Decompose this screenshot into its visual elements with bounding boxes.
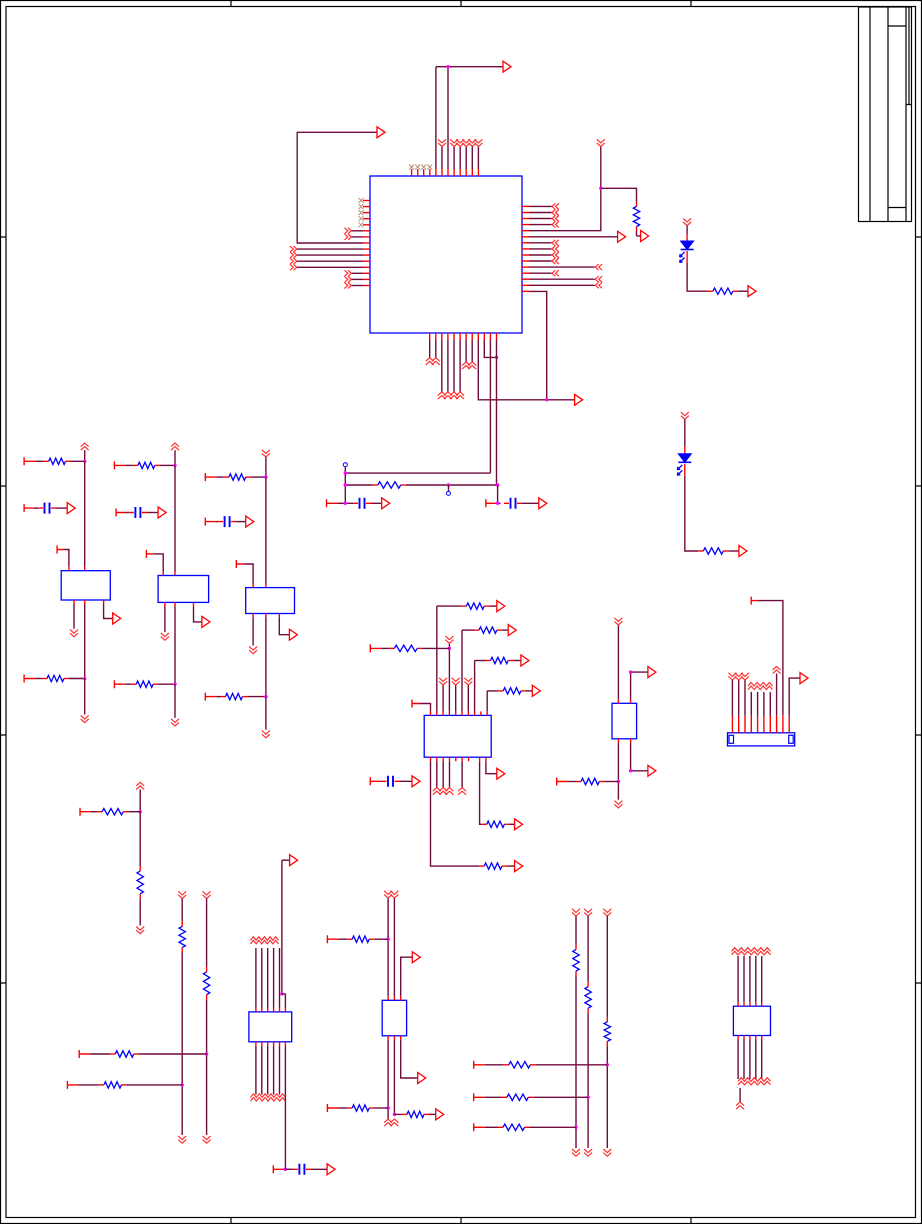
vertical rail left of bus [344,467,346,504]
U1 top pin wire with net label [459,169,461,176]
U1 bottom pin wire with net label [435,333,437,340]
port arrow cap bottom [327,1164,335,1175]
U1 right pin wire with net label [522,272,529,274]
U1 top NC pin [423,169,425,176]
U2 pin9 stub [480,711,482,715]
U2 pin1 wire from pin header [412,700,420,708]
port arrow row 4 [532,685,540,696]
U6 top pin wire with net label [737,1002,739,1006]
junction dot bottom row [173,683,176,686]
junction dot top row [83,460,86,463]
regulator output pin wire to port [278,614,280,618]
wire enable to body [153,554,163,572]
net label top rail [81,443,89,450]
capacitor C5 [511,498,516,509]
resistor row 2 [462,629,474,631]
junction dot bus line [574,1126,577,1129]
resistor U5 to port [394,1113,402,1115]
U4 bottom pin wire with net label [267,1042,269,1046]
chip U4 body [249,1012,292,1042]
wire pin to resistor [125,464,132,466]
U1 right pin wire with net label [522,248,529,250]
U5 bottom pin1 rail [387,1036,389,1040]
chip U5 body [382,1000,406,1036]
bus line upper [587,916,589,982]
U4 top pin wire with net label [267,1008,269,1012]
U1 left NC pin 3 [363,212,370,214]
wire pin to bottom resistor [125,683,131,685]
U6 bottom pin wire with net label [755,1036,757,1040]
resistor R vertical chain [139,866,141,871]
wire to U2 cap [380,780,381,782]
U2 pin8 wire to resistor row 3 [474,711,476,715]
net label top rail [171,443,179,450]
port arrow row 6 [515,819,523,830]
net label top of pull-down [203,891,211,898]
wire U2 cap to port [400,780,413,782]
net label top of pull-down [178,891,186,898]
U1 right pin wire with net label [522,260,529,262]
junction dot U5 pin2 [393,1113,396,1116]
left resistor row into U2 pin4 [370,644,381,652]
port arrow J1 [800,673,808,684]
U1 right pin wire with net label [522,242,529,244]
J1 pin wire with net label [731,716,733,733]
U1 top NC pin [429,169,431,176]
bus line lower [606,1046,608,1148]
U6 top pin wire with net label [755,1002,757,1006]
junction dot cap row right [496,502,499,505]
port arrow below R4 [641,231,649,242]
wire C5 to port [522,502,539,504]
wire below R4 [636,232,638,237]
rail wire down to regulator [84,461,86,566]
U2 bottom pin8 long wire to resistor row 6 [479,757,481,761]
U1 top pin wire with net label [453,169,455,176]
U4 top pin wire with net label [255,1008,257,1012]
U1 bottom pin wire with net label [465,333,467,340]
chip U6 body [733,1006,770,1035]
regulator enable pin [146,550,153,558]
junction dot U3 top [629,670,632,673]
U1 right long pin wire with net label [522,266,529,268]
J1 pin wire with net label [769,716,771,733]
port arrow cap [246,516,254,527]
J1 pin wire with net label [738,716,740,733]
regulator input pin top [265,584,267,588]
J1 pin wire with net label [744,716,746,733]
net label bottom rail [262,731,270,738]
J1 pin wire with net label [750,716,752,733]
bus feed resistor [502,1096,507,1098]
border zone ticks bottom [231,1218,691,1224]
U5 bottom pin2 wire to resistor [393,1036,395,1040]
wire pin to bottom resistor [35,678,42,680]
decoupling cap [45,503,50,514]
no-ERC marker blue circle 2 [447,491,451,495]
junction dot top row [173,464,176,467]
regulator gnd pin wire [73,600,75,604]
junction dot top net [446,65,449,68]
U1 left long pin wire with net label [363,248,370,250]
bus feed resistor [504,1064,509,1066]
wire resistor to bus line [535,1064,607,1066]
rail wire to bottom label [265,697,267,730]
U1 right pin wire turning down [522,290,529,292]
wire to top port [436,66,503,68]
connector J1 body [728,733,795,746]
net label above pull-up [597,139,605,146]
bus line lower [587,1013,589,1148]
resistor row 4 [487,690,498,692]
bus line upper [575,916,577,945]
junction dot U5 top [386,938,389,941]
LED anode pin [686,234,688,241]
bus resistor [587,982,589,987]
border zone ticks left [1,237,7,983]
U2 pin6 wire to resistor row 2 [461,711,463,715]
U1 bottom pin wire to port [477,333,479,340]
junction on pull-up rail [599,187,602,190]
wire cap to port [56,507,67,509]
net label above LED [681,412,689,419]
junction dot pull-down [181,1083,184,1086]
wire enable to body [64,550,69,567]
wire pin to bus resistor [485,1126,498,1128]
wire pin to bus resistor [485,1064,504,1066]
port arrow U5 top [412,952,420,963]
rail wire down to regulator [174,465,176,571]
wire to decoupling cap [215,521,218,523]
net label gnd [161,633,169,640]
U2 bottom pin9 wire to port [485,757,487,761]
bottom resistor [131,683,136,685]
rail wire below regulator [265,618,267,697]
border zone ticks top [231,1,691,7]
pull resistor top row: pin [205,473,216,481]
rail wire to bottom label [174,684,176,718]
U1 left NC pin 4 [363,218,370,220]
bottom row pin [114,680,125,688]
regulator output pin wire to port [193,602,195,606]
decoupling cap pin [24,504,34,512]
U4 bottom pin6 long wire to cap row [284,1042,286,1046]
port arrow row 2 [508,625,516,636]
resistor top row [44,460,49,462]
junction dot U5 bottom [386,1106,389,1109]
U1 left pin wire with net label [363,272,370,274]
port arrow U5 right [436,1109,444,1120]
wire enable to body [243,564,253,584]
U1 left long pin wire with net label [363,266,370,268]
title block (rotated, top right) [859,7,912,222]
U2 pin3 wire with net label [442,711,444,715]
net label U3 bottom [614,801,622,808]
U1 top NC pin [417,169,419,176]
wire resistor to port [738,290,748,292]
junction dot bus lower left [344,483,347,486]
chip U3 body [612,703,637,739]
net label above LED [683,218,691,225]
U1 right pin wire with net label [522,254,529,256]
U4 bottom pin wire with net label [261,1042,263,1046]
U5 top pin3 wire to port [400,996,402,1000]
U1 left NC pin 1 [363,200,370,202]
U6 top pin wire with net label [749,1002,751,1006]
decoupling cap pin [205,518,215,526]
top rail wire [265,457,267,477]
U2 pin10 wire to resistor row 4 [486,711,488,715]
wire bottom resistor to rail [158,683,175,685]
U3 bottom pin2 wire to port [630,739,632,743]
rail wire down to regulator [265,477,267,583]
no-ERC marker blue circle [343,463,347,467]
U2 bottom pin1 long wire to resistor row 5 [430,757,432,761]
junction dot bus lower right [496,483,499,486]
U3 top pin2 wire to port [630,699,632,703]
wire pin to resistor [90,1053,110,1055]
resistor row into R chain [80,808,91,816]
bottom resistor [42,678,47,680]
net label gnd [70,630,78,637]
wire LED to resistor [685,476,699,551]
wire resistor to bus line [530,1126,577,1128]
pull resistor top row: pin [24,457,35,465]
regulator body [246,588,295,614]
J1 pin wire tall with net label [776,716,778,733]
U2 bottom pin5 stub [455,757,457,761]
wire resistor to bus line [533,1096,588,1098]
U1 right long pin wire with net label [522,278,529,280]
U1 bottom pin long wire to bus 2 [496,333,498,340]
U1 left NC pin 2 [363,206,370,208]
bus feed row pin [474,1093,485,1101]
rail wire to bottom label [84,679,86,715]
regulator input pin top [174,572,176,576]
U1 bottom pin long wire with net label [441,333,443,340]
pull resistor top row: pin [114,461,125,469]
resistor row into U5 top [327,935,338,943]
U2 pin2 long wire to resistor row 1 [436,711,438,715]
U1 left pin wire to top-left port [363,242,370,244]
net label bottom of bus line [603,1149,611,1156]
U4 bottom pin wire with net label [279,1042,281,1046]
bottom resistor [221,696,226,698]
junction dot bottom row [83,677,86,680]
capacitor bottom [299,1164,304,1175]
pull-down rail lower [181,953,183,1136]
resistor row 3 [475,660,486,662]
U2 decoupling cap [388,776,393,787]
wire to C5 [497,502,501,504]
feed resistor [110,1053,115,1055]
junction dot U4 rail [280,992,283,995]
pull-down rail lower [206,1000,208,1135]
port arrow U2 out [497,768,505,779]
wire resistor to rail [160,464,175,466]
net label bottom rail [171,719,179,726]
U1 bottom pin wire with net label [471,333,473,340]
junction dot U3 bottom 2 [629,769,632,772]
wire bottom resistor to rail [69,678,85,680]
U1 right pin wire with net label [522,212,529,214]
port arrow output [202,616,210,627]
net label U5 bottom [384,1119,392,1126]
U1 left long pin wire with net label [363,260,370,262]
wire pin to bottom resistor [216,696,220,698]
U1 top pin wire with net label [465,169,467,176]
port arrow top [503,61,511,72]
port arrow cap [158,507,166,518]
U1 right pin wire with net label [522,218,529,220]
port arrow output [113,613,121,624]
decoupling cap pin [116,509,126,517]
U5 top pin1 rail with net label [387,996,389,1000]
U1 top pin wire with net label [441,169,443,176]
junction dot bus line [606,1063,609,1066]
wire cap to port [236,521,246,523]
port arrow U3 top [648,667,656,678]
U1 bottom pin long wire with net label [453,333,455,340]
R chain wire to resistor [139,812,141,866]
port arrow LED [748,286,756,297]
port arrow below right [575,394,583,405]
U6 bottom pin wire with net label [749,1036,751,1040]
bus wire lower with resistor R5 [345,484,373,486]
pull-down resistor [181,921,183,926]
U1 bottom pin wire with net label [429,333,431,340]
U1 left pin wire with net label [363,285,370,287]
resistor row 5 [479,865,484,867]
U1 bottom pin long wire with net label [459,333,461,340]
regulator input pin top [84,567,86,571]
net label top of bus line [584,909,592,916]
cap row bottom: pin [273,1165,282,1173]
net label top of R chain [136,782,144,789]
LED series resistor [708,290,713,292]
port arrow row 1 [497,601,505,612]
port arrow output [289,629,297,640]
net label bottom of bus line [584,1149,592,1156]
bus wire upper [345,472,490,474]
wire pin to resistor [78,1084,99,1086]
U6 bottom pin wire with net label [743,1036,745,1040]
junction dot resistor feed [448,647,451,650]
junction dot U3 bottom [617,780,620,783]
junction dot jog [495,356,498,359]
wire resistor to port [728,550,739,552]
wire to LED anode [686,226,688,234]
wire to LED anode [684,419,686,447]
junction dot cap row left [344,502,347,505]
LED diode [681,241,694,250]
U6 top pin wire with net label [761,1002,763,1006]
U4 rail jog to pin6 [282,994,286,1008]
port arrow top-left [377,127,385,138]
net label top rail [262,450,270,457]
junction dot [545,398,548,401]
resistor top row [133,464,138,466]
junction dot R chain [139,810,142,813]
U2 bottom pin wire with net label [442,757,444,761]
decoupling cap [225,516,230,527]
wire resistor to rail [126,1084,182,1086]
port arrow C4 [382,498,390,509]
U1 right pin wire to pull-up net [522,230,529,232]
LED cathode pin [684,464,686,476]
port arrow U3 bottom [648,765,656,776]
U3 top pin1 rail with net label [617,699,619,703]
port arrow U2 cap [412,776,420,787]
port arrow U5 out [418,1073,426,1084]
rail wire below regulator [84,604,86,679]
bus resistor [606,1017,608,1022]
J1 pin9 wire to pin header [782,716,784,733]
wire resistor to rail [251,476,266,478]
wire to decoupling cap [34,507,38,509]
bus feed row pin [474,1061,485,1069]
U2 pin5 wire with net label [455,711,457,715]
U1 left NC pin 5 [363,224,370,226]
rail wire below regulator [174,606,176,684]
U2 pin4 wire with net label and resistor feed [448,711,450,715]
capacitor C5 left pin [486,499,497,507]
U4 top pin wire with net label [261,1008,263,1012]
U1 top NC pin [411,169,413,176]
U1 right pin wire with net label [522,205,529,207]
regulator output pin wire to port [103,600,105,604]
U6 gnd wire with net label [739,1088,741,1102]
bottom row pin [24,675,35,683]
wire C4 to port [371,502,382,504]
capacitor C4 left pin [327,499,338,507]
bus line lower [575,976,577,1148]
net label top of bus line [572,909,580,916]
J1 pin10 wire to port [788,716,790,733]
U2 pin7 wire with net label [467,711,469,715]
LED cathode pin [686,251,688,263]
resistor top row [224,476,229,478]
U1 top pin wire with net label [477,169,479,176]
resistor row feed: pin [79,1050,90,1058]
U1 top pin wire to port net [435,169,437,176]
top rail wire [84,450,86,461]
junction dot bottom row [264,695,267,698]
R chain top wire [139,790,141,812]
bus feed row pin [474,1123,485,1131]
net label top of bus line [603,909,611,916]
U1 right pin wire to port [522,236,529,238]
wire branch to resistor R4 [601,188,637,201]
U1 left long pin wire with net label [363,254,370,256]
U1 bottom pin jog wire [483,333,485,340]
wire junction to cap [285,1168,293,1170]
feed resistor [99,1084,104,1086]
regulator out rail pin [265,614,267,618]
capacitor C4 [360,498,365,509]
junction dot top row [264,475,267,478]
net label bottom of pull-down [178,1136,186,1143]
bottom row pin [205,693,216,701]
U4 bottom pin wire with net label [255,1042,257,1046]
regulator enable pin [236,560,243,568]
bus line upper [606,916,608,1017]
regulator out rail pin [84,600,86,604]
net label bottom rail [81,715,89,722]
regulator body [158,576,209,603]
U6 bottom pin wire with net label [737,1036,739,1040]
U6 top pin wire with net label [743,1002,745,1006]
